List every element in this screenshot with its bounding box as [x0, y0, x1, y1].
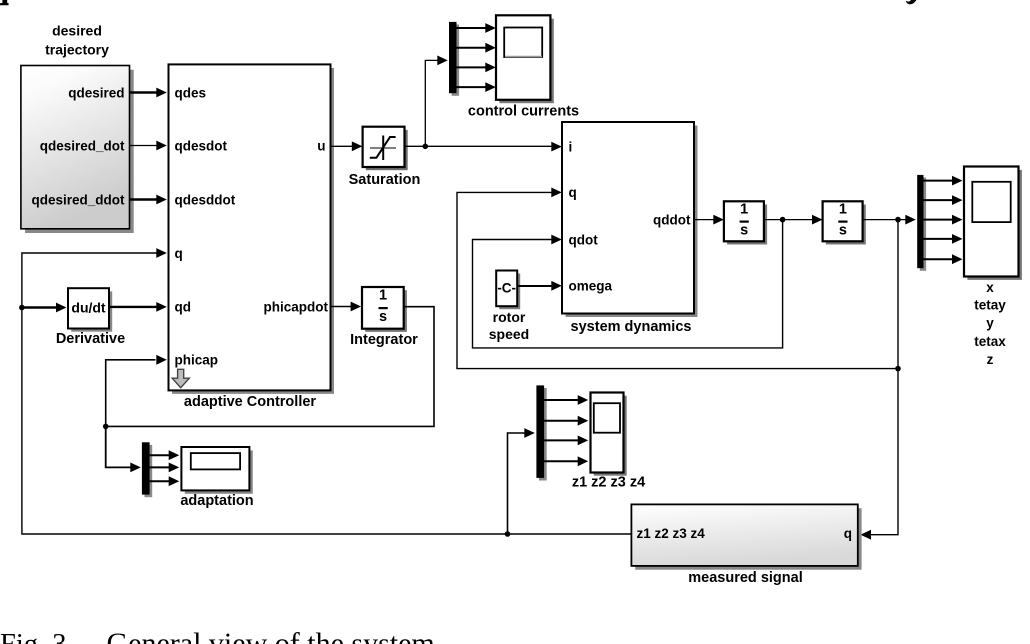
wire long feedback from measured signal to q input: [22, 248, 632, 534]
wire demux output 3 to adaptation display: [150, 476, 180, 486]
wire demux output 3 to x-tetay scope: [924, 215, 963, 225]
wire demux output 1 to control currents scope: [457, 23, 496, 33]
junction dot derivative branch: [19, 305, 25, 311]
svg-text:qdesired_dot: qdesired_dot: [40, 138, 125, 153]
svg-text:tetay: tetay: [974, 297, 1006, 312]
svg-text:measured signal: measured signal: [688, 570, 802, 586]
wire phicapdot to Integrator: [331, 302, 362, 312]
block: integrator 2 (1/s): [823, 201, 866, 244]
scope: z1 z2 z3 z4: [572, 393, 645, 491]
wire integrator2 to scope demux: [863, 215, 916, 225]
svg-text:qdesired: qdesired: [68, 85, 124, 100]
junction dot phicap loop: [103, 424, 109, 430]
svg-text:trajectory: trajectory: [45, 41, 109, 57]
svg-text:1: 1: [379, 288, 387, 304]
svg-text:Integrator: Integrator: [350, 332, 418, 348]
block: adaptation display: [180, 447, 253, 509]
svg-text:qd: qd: [175, 299, 192, 314]
block: integrator 1 (1/s): [724, 201, 767, 244]
svg-text:qdesddot: qdesddot: [175, 192, 236, 207]
svg-text:qdesired_ddot: qdesired_ddot: [31, 192, 125, 207]
wire down to adaptation demux: [106, 426, 141, 472]
wire up to phicap input: [106, 355, 167, 427]
svg-text:du/dt: du/dt: [71, 299, 106, 315]
junction dot at saturation branch: [423, 144, 429, 150]
scope: control currents: [468, 15, 579, 119]
svg-text:q: q: [844, 526, 852, 541]
block: measured signal subsystem (flipped): [631, 504, 861, 586]
svg-text:z1 z2 z3 z4: z1 z2 z3 z4: [637, 526, 706, 541]
wire demux output 2 to adaptation display: [150, 463, 180, 473]
svg-text:-C-: -C-: [497, 280, 516, 295]
svg-text:qddot: qddot: [653, 212, 691, 227]
wire demux output 4 to z1z2z3z4 scope: [544, 456, 588, 466]
wire branch up to control-currents demux: [425, 56, 448, 147]
wire Derivative output to qd: [109, 302, 167, 312]
svg-text:q: q: [569, 185, 577, 200]
cropped text glyph top-left: [0, 0, 9, 5]
junction dot z-scope branch: [505, 531, 511, 537]
demux bar (z1 z2 z3 z4 scope): [536, 385, 546, 480]
wire demux output 4 to x-tetay scope: [924, 234, 963, 244]
icon: gray down-arrow inside controller (phicap): [172, 369, 189, 387]
svg-text:z1 z2 z3 z4: z1 z2 z3 z4: [572, 474, 645, 490]
wire demux output 3 to z1z2z3z4 scope: [544, 436, 588, 446]
wire qdesired: [130, 88, 167, 98]
svg-text:system dynamics: system dynamics: [571, 319, 692, 335]
wire q feedback down to measured signal: [861, 220, 899, 540]
svg-text:qdot: qdot: [569, 232, 599, 247]
svg-text:z: z: [987, 352, 994, 367]
svg-text:speed: speed: [489, 326, 529, 342]
block: desired trajectory (source subsystem): [21, 22, 134, 233]
svg-text:adaptation: adaptation: [180, 493, 253, 509]
wire branch to Derivative: [22, 303, 67, 313]
svg-text:qdesdot: qdesdot: [175, 138, 228, 153]
wire qdesired_dot: [130, 141, 167, 151]
junction dot q feedback left branch: [895, 366, 901, 372]
wire q feedback (from x=898) into q input: [457, 188, 898, 369]
svg-text:1: 1: [740, 202, 748, 218]
svg-text:qdes: qdes: [175, 85, 207, 100]
wire demux output 2 to z1z2z3z4 scope: [544, 416, 588, 426]
svg-text:tetax: tetax: [974, 334, 1006, 349]
block: Integrator (1/s): [350, 287, 418, 348]
wire u to Saturation: [331, 141, 363, 151]
svg-text:phicapdot: phicapdot: [264, 299, 329, 314]
junction dot q branch: [895, 217, 901, 223]
svg-text:x: x: [986, 280, 994, 295]
wire qdesired_ddot: [130, 195, 167, 205]
svg-text:control currents: control currents: [468, 103, 579, 119]
wire Integrator output loop to phicap and adaptation: [106, 307, 434, 427]
svg-text:Saturation: Saturation: [349, 172, 421, 188]
block: rotor speed constant (-C-): [489, 271, 529, 342]
svg-text:adaptive Controller: adaptive Controller: [184, 394, 316, 410]
wire demux output 2 to control currents scope: [457, 43, 496, 53]
wire demux output 1 to adaptation display: [150, 450, 180, 460]
demux bar (x tetay y tetax z scope): [917, 175, 926, 271]
junction dot qdot branch: [780, 217, 786, 223]
svg-text:omega: omega: [569, 278, 613, 293]
wire Saturation output to system dynamics i: [405, 142, 562, 152]
cropped text glyph top-right (tail of y): [906, 0, 917, 4]
svg-text:u: u: [317, 138, 325, 153]
block: Saturation: [349, 127, 421, 188]
wire qddot to integrator 1: [694, 215, 724, 225]
wire demux output 5 to x-tetay scope: [924, 254, 963, 264]
svg-text:desired: desired: [52, 22, 102, 38]
svg-text:Derivative: Derivative: [56, 331, 125, 347]
block: Derivative (du/dt): [56, 288, 125, 347]
svg-text:1: 1: [839, 202, 847, 218]
wire demux output 2 to x-tetay scope: [924, 195, 963, 205]
wire qdot feedback (from first integrator): [473, 220, 783, 348]
demux bar (adaptation): [142, 442, 152, 497]
wire integrator1 to integrator2: [764, 215, 823, 225]
svg-text:phicap: phicap: [175, 352, 219, 367]
scope: x tetay y tetax z: [964, 167, 1022, 367]
demux bar (control currents): [449, 22, 459, 96]
svg-text:s: s: [740, 223, 748, 239]
svg-text:q: q: [175, 246, 183, 261]
wire demux output 4 to control currents scope: [457, 82, 496, 92]
wire demux output 3 to control currents scope: [457, 63, 496, 73]
wire rotor speed to omega: [517, 281, 562, 291]
block: adaptive Controller subsystem: [169, 64, 335, 409]
svg-text:rotor: rotor: [493, 309, 526, 325]
wire demux output 1 to z1z2z3z4 scope: [544, 395, 588, 405]
svg-text:Fig. 3.General view of the sys: Fig. 3.General view of the system: [0, 627, 435, 644]
block: system dynamics subsystem: [562, 122, 698, 335]
svg-text:i: i: [569, 139, 573, 154]
svg-text:y: y: [986, 315, 994, 330]
wire branch up to z demux: [508, 428, 535, 534]
wire demux output 1 to x-tetay scope: [924, 176, 963, 186]
svg-text:s: s: [379, 309, 387, 325]
svg-text:s: s: [839, 223, 847, 239]
